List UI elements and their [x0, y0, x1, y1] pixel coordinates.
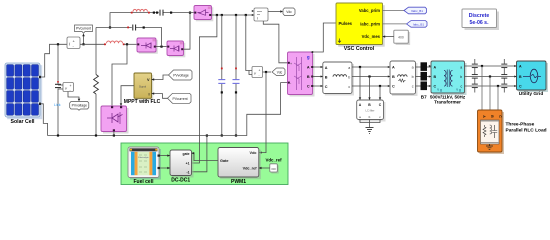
wires fuel cell to DC-DC1: [160, 155, 170, 157]
wire inductor to IGBT Q1: [124, 43, 137, 45]
svg-text:Iabc_prim: Iabc_prim: [360, 22, 380, 27]
three-phase series RL branch: [323, 62, 354, 96]
svg-text:A: A: [519, 65, 522, 69]
from tag PVvoltage: [152, 70, 193, 81]
goto tag Idc: [268, 8, 295, 16]
svg-text:Parallel RLC Load: Parallel RLC Load: [506, 128, 547, 134]
svg-text:PVcurrent: PVcurrent: [76, 27, 91, 31]
svg-text:a: a: [460, 65, 462, 69]
universal bridge (3-arm IGBT inverter): [288, 52, 315, 97]
ground: [366, 128, 374, 134]
wire MPPT gate output to IGBT Q3: [121, 86, 134, 106]
resistor R1 branch: [95, 28, 97, 75]
svg-text:Discrete: Discrete: [469, 13, 490, 19]
svg-text:5e-06 s.: 5e-06 s.: [469, 20, 489, 26]
negative DC bus: [48, 83, 288, 136]
svg-text:A: A: [325, 66, 328, 70]
green subsystem panel (fuel cell / DC-DC / PWM area): [121, 143, 288, 185]
svg-text:Gate: Gate: [220, 159, 228, 163]
Idc measurement block: [252, 8, 268, 21]
discrete solver block: [462, 9, 499, 30]
filter bottom stubs to ground: [360, 120, 380, 123]
positive DC bus: [212, 14, 255, 16]
PWM1 block: [218, 148, 261, 180]
svg-text:c: c: [348, 85, 350, 89]
wire boost node down to IGBT Q3 collector: [112, 44, 127, 106]
svg-text:b: b: [348, 75, 350, 79]
svg-text:Three-Phase: Three-Phase: [506, 122, 535, 128]
svg-text:+: +: [259, 69, 261, 73]
wire Q2 output up to top rail: [184, 13, 191, 50]
goto tag PVcurrent: [75, 25, 93, 45]
IGBT Q3 block (main boost switch): [101, 106, 129, 134]
svg-text:-: -: [70, 88, 71, 92]
wires branch2 to B7: [416, 66, 421, 68]
svg-text:Vdc_ref: Vdc_ref: [243, 167, 258, 171]
constant Vdc_ref 300: [259, 158, 282, 174]
wire DC-DC1 -1 riser: [192, 136, 207, 172]
svg-text:-1: -1: [186, 170, 189, 174]
wire PV top to current sensor row: [41, 44, 67, 77]
svg-text:B: B: [519, 75, 522, 79]
three-phase wires to second branch with taps: [352, 66, 390, 68]
from tag PVcurrent: [152, 92, 192, 103]
DC-DC1 converter block: [170, 150, 194, 178]
row 2 (capacitor row): [96, 28, 162, 47]
svg-text:Electrolyte: Electrolyte: [138, 156, 149, 159]
bus measurement B7: [421, 62, 428, 90]
IGBT Q1 block: [137, 38, 158, 54]
MPPT with FLC block: [134, 73, 153, 100]
three-phase series RL branch 2: [390, 61, 418, 96]
svg-text:C: C: [392, 85, 395, 89]
constant 400: [383, 30, 411, 45]
wire Vdc junction down to PWM1: [259, 72, 266, 153]
svg-text:Y g: Y g: [437, 88, 442, 92]
svg-text:DC-DC1: DC-DC1: [171, 178, 190, 184]
current measurement sensor: [67, 37, 80, 49]
Vdc measurement block: [252, 67, 263, 78]
svg-text:b: b: [412, 75, 414, 79]
svg-text:B7: B7: [421, 95, 427, 100]
svg-text:c: c: [412, 85, 414, 89]
svg-text:Solar Cell: Solar Cell: [11, 119, 35, 125]
svg-text:C: C: [325, 85, 328, 89]
svg-text:Pulses: Pulses: [339, 21, 353, 26]
wires B7 to transformer: [427, 66, 431, 68]
top rail row 1: [110, 13, 194, 28]
svg-text:Signal: Signal: [139, 85, 147, 89]
goto tag Iabc_B1: [383, 21, 428, 28]
svg-text:Vabc_B1: Vabc_B1: [411, 9, 423, 13]
svg-text:A: A: [434, 65, 437, 69]
svg-text:Y g: Y g: [456, 88, 461, 92]
node taps to RLC load: [481, 65, 483, 67]
svg-text:c: c: [460, 85, 462, 89]
svg-text:LC filter: LC filter: [366, 109, 375, 113]
capacitor C1 (series, top rail): [159, 10, 164, 15]
port arrows: [321, 66, 323, 68]
svg-text:Iabc_B1: Iabc_B1: [413, 22, 424, 26]
svg-text:PWM1: PWM1: [231, 179, 246, 185]
svg-text:i: i: [257, 16, 258, 21]
IGBT Q2 block: [167, 41, 185, 57]
tap wires down to filter block: [359, 67, 361, 100]
voltage measurement PV: [58, 83, 74, 93]
svg-text:B: B: [307, 75, 310, 79]
wire VSC pulses to bridge gate: [312, 23, 337, 52]
svg-text:Vdc_ref: Vdc_ref: [265, 158, 282, 163]
svg-text:Vdc: Vdc: [250, 151, 257, 155]
wire PV bottom to negative bus: [41, 104, 48, 136]
transformer 500V/11kV: [431, 61, 467, 95]
wire positive rail to Vdc measurement: [246, 15, 252, 71]
svg-text:400: 400: [398, 35, 404, 39]
wire Idc block to bridge +: [263, 21, 287, 63]
capacitor C_in plates: [55, 83, 61, 85]
svg-text:+: +: [290, 62, 292, 66]
svg-text:Transformer: Transformer: [434, 100, 461, 105]
svg-text:b: b: [460, 75, 462, 79]
wire Q3 emitter to negative bus: [113, 132, 115, 136]
three-phase wires bridge to RL branch: [313, 66, 323, 68]
three-phase wires transformer to grid: [465, 65, 517, 67]
svg-text:I: I: [148, 92, 149, 96]
svg-text:PVvoltage: PVvoltage: [173, 74, 189, 78]
wire PWM1 gate to DC-DC1: [192, 153, 219, 160]
svg-text:VSC Control: VSC Control: [344, 46, 375, 52]
svg-text:Vdc: Vdc: [277, 71, 283, 75]
svg-text:PVcurrent: PVcurrent: [172, 97, 187, 101]
svg-text:B: B: [434, 75, 437, 79]
series capacitor bank 1: [472, 59, 478, 93]
svg-text:-: -: [259, 74, 260, 78]
VSC Control block: [336, 3, 385, 47]
svg-text:C: C: [519, 85, 522, 89]
svg-text:C: C: [307, 85, 310, 89]
svg-text:B: B: [392, 75, 395, 79]
series capacitor bank 2: [501, 59, 507, 93]
svg-text:a: a: [348, 66, 350, 70]
goto tag PVvoltage: [68, 92, 89, 111]
wire input capacitor branch: [57, 44, 59, 84]
DC link capacitor C3: [235, 15, 237, 79]
svg-text:Vabc_prim: Vabc_prim: [359, 8, 380, 13]
wire Q1 to Q2: [156, 46, 167, 48]
svg-text:Utility Grid: Utility Grid: [519, 91, 544, 97]
boost inductor L1 (red coil): [107, 41, 123, 43]
svg-text:+1: +1: [186, 162, 190, 166]
DC link capacitor C2: [221, 15, 223, 79]
LC filter block: [357, 100, 386, 122]
svg-text:Vdc: Vdc: [286, 10, 292, 14]
svg-text:A: A: [307, 66, 310, 70]
svg-text:MPPT with FLC: MPPT with FLC: [124, 99, 161, 105]
svg-text:a: a: [412, 65, 414, 69]
svg-text:Link: Link: [54, 103, 61, 107]
svg-text:g: g: [307, 55, 310, 60]
svg-text:Fuel cell: Fuel cell: [133, 179, 154, 185]
svg-text:300: 300: [271, 167, 276, 171]
diode block D1: [194, 6, 213, 22]
svg-text:Vdc_mes: Vdc_mes: [362, 34, 381, 39]
svg-text:gate: gate: [183, 152, 190, 156]
svg-text:A: A: [392, 65, 395, 69]
wire DC-DC1 +1 riser (jog around diode block): [192, 15, 217, 163]
wire sensor to boost inductor: [80, 43, 106, 45]
svg-text:PVvoltage: PVvoltage: [72, 104, 88, 108]
utility grid block: [517, 61, 549, 92]
solar cell PV array: [5, 63, 42, 125]
node: cap branch junction: [57, 43, 59, 45]
three-phase parallel RLC load: [478, 110, 505, 154]
from tag Vdc: [263, 68, 286, 76]
inductor L2 (red coil on top rail): [133, 9, 147, 11]
fuel cell stack block: [128, 147, 161, 180]
svg-text:B: B: [325, 75, 328, 79]
goto tag Vabc_B1: [383, 7, 427, 14]
